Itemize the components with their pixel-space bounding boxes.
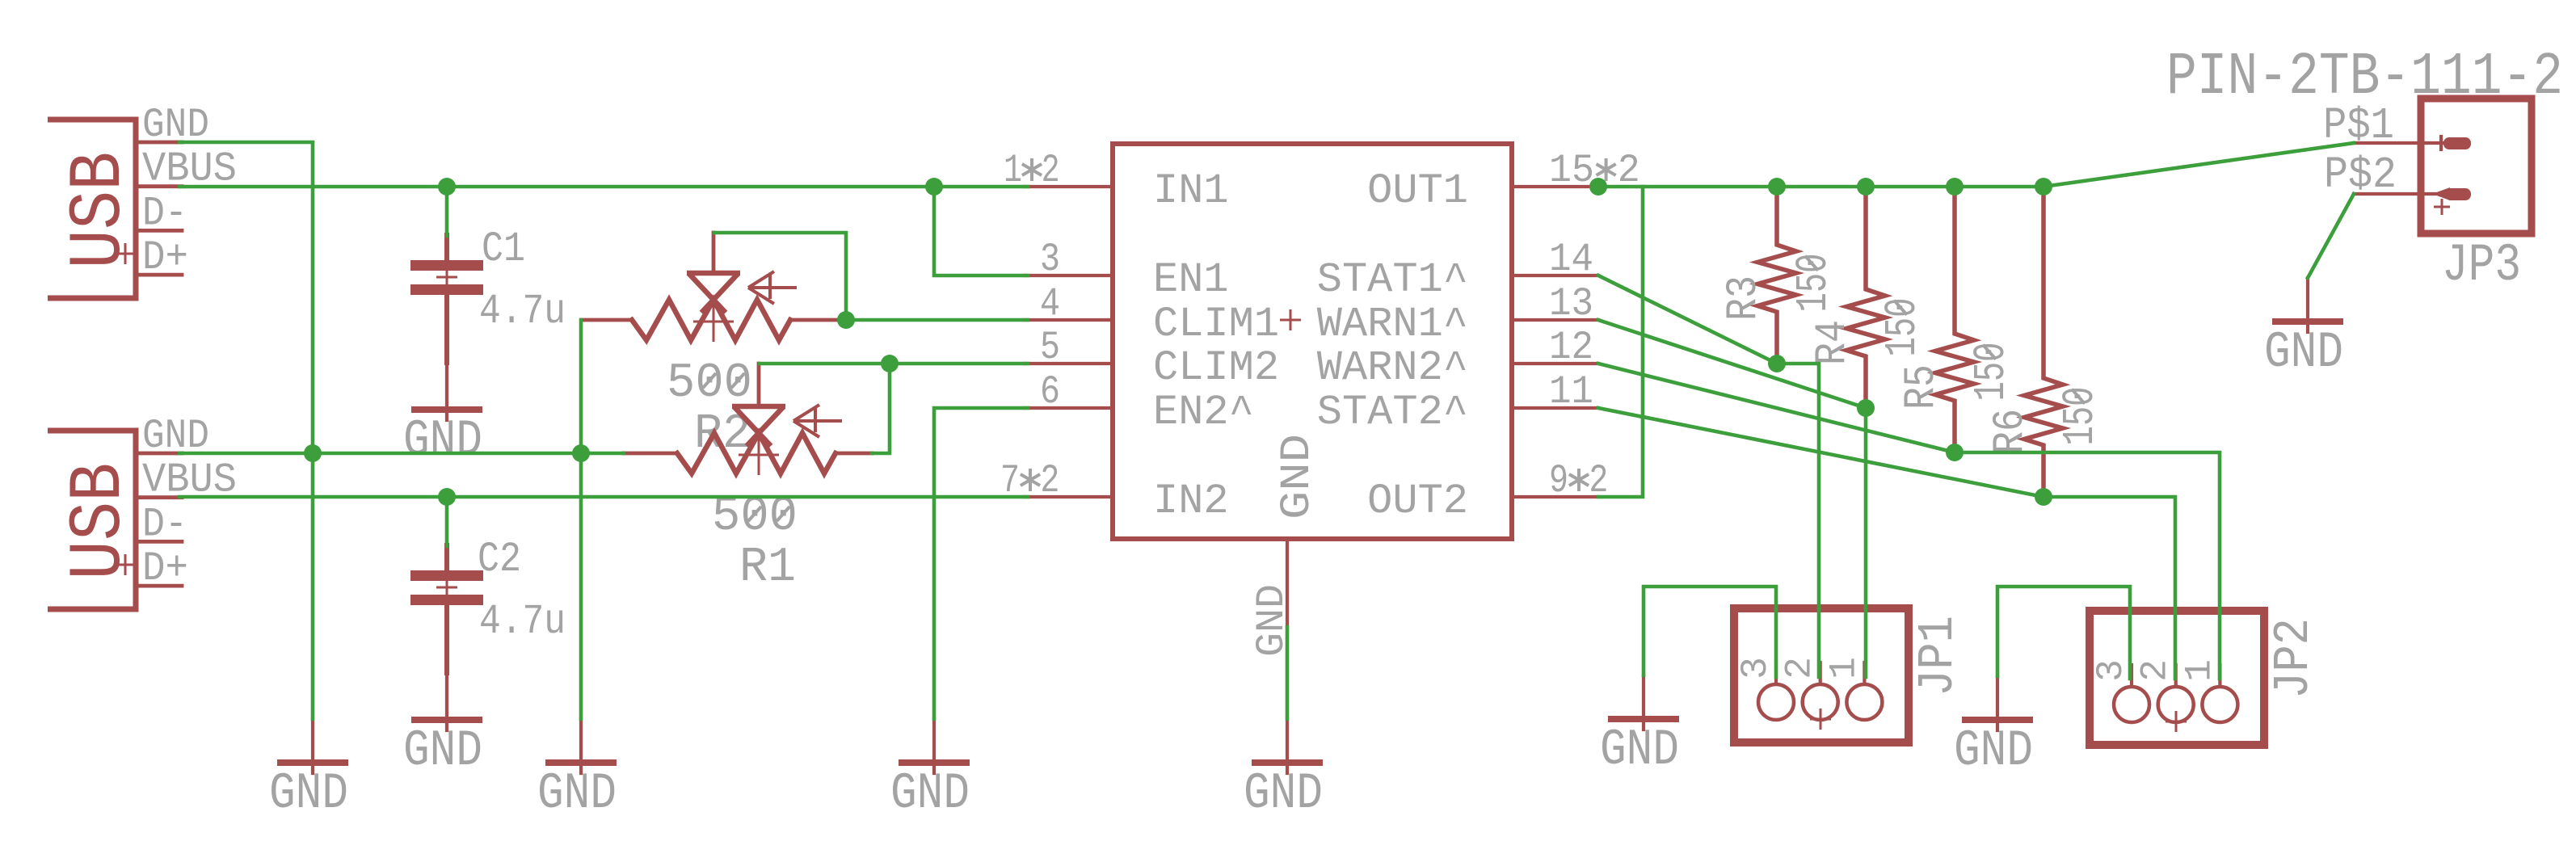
pin 15*2 (OUT1) <box>1367 148 1640 215</box>
svg-text:150: 150 <box>2055 387 2106 446</box>
pin 1*2 (IN1) <box>1004 148 1229 215</box>
svg-text:OUT1: OUT1 <box>1367 167 1468 215</box>
wire GND2 row: USB2.GND across <box>179 452 581 456</box>
connector USB (J1) <box>48 120 182 298</box>
junction <box>1946 444 1964 461</box>
svg-text:WARN2^: WARN2^ <box>1317 344 1468 392</box>
wire EN2 to gnd <box>934 408 1028 719</box>
svg-text:3: 3 <box>2090 659 2132 682</box>
connector JP3 (PIN-2TB-111-2) <box>2354 99 2532 233</box>
svg-text:GND: GND <box>890 765 970 822</box>
svg-text:D-: D- <box>142 502 187 548</box>
capacitor C1 <box>410 233 483 365</box>
svg-text:USB: USB <box>57 463 141 580</box>
ground <box>403 366 482 469</box>
wire C1 top lead <box>445 187 449 236</box>
svg-text:JP1: JP1 <box>1909 616 1967 696</box>
svg-text:D+: D+ <box>142 546 188 592</box>
svg-text:WARN1^: WARN1^ <box>1317 301 1468 348</box>
svg-text:1: 1 <box>1823 657 1865 679</box>
svg-text:150: 150 <box>1788 254 1839 313</box>
svg-text:12: 12 <box>1549 325 1593 370</box>
ground <box>269 719 348 822</box>
svg-text:R6: R6 <box>1986 409 2035 454</box>
junction <box>1768 355 1786 372</box>
svg-text:P$2: P$2 <box>2324 149 2397 200</box>
junction <box>1589 178 1607 196</box>
junction <box>1857 399 1875 417</box>
ground <box>1600 675 1679 779</box>
resistor R4 150 <box>1846 187 1885 408</box>
IC GND pin <box>1249 434 1321 657</box>
pin numbers 3 2 1 <box>1735 657 1865 679</box>
wire WARN1 to JP1.1 <box>1864 408 1868 677</box>
svg-text:13: 13 <box>1549 281 1593 326</box>
potentiometer R2 500 <box>582 233 844 342</box>
svg-text:4: 4 <box>1040 281 1060 326</box>
svg-text:STAT1^: STAT1^ <box>1317 256 1468 304</box>
svg-text:11: 11 <box>1549 369 1593 414</box>
svg-text:GND: GND <box>1954 722 2033 780</box>
svg-text:JP2: JP2 <box>2265 618 2322 699</box>
svg-text:R1: R1 <box>739 540 796 595</box>
svg-text:P$1: P$1 <box>2323 100 2394 151</box>
pin header JP2 <box>2090 611 2264 745</box>
wire R1 left lead <box>581 452 624 456</box>
svg-text:GND: GND <box>1600 721 1679 779</box>
wire STAT1 to JP1.2 <box>1777 364 1819 677</box>
pin 4 (CLIM1) <box>1025 281 1279 348</box>
USB pin labels GND VBUS D- D+ <box>142 414 237 592</box>
svg-text:D+: D+ <box>142 235 188 281</box>
wire C2 top lead <box>445 497 449 546</box>
svg-text:GND: GND <box>537 765 617 822</box>
wire STAT1 diagonal <box>1598 275 1777 364</box>
svg-text:JP3: JP3 <box>2442 235 2521 296</box>
wire WARN1 diagonal <box>1598 320 1866 408</box>
ground <box>1954 676 2033 780</box>
pin header JP1 <box>1734 608 1909 742</box>
svg-text:GND: GND <box>403 722 482 780</box>
ground <box>403 676 482 780</box>
wire pot column x719 <box>579 320 583 719</box>
pin 6 (EN2^) <box>1025 369 1254 436</box>
svg-text:STAT2^: STAT2^ <box>1317 389 1468 436</box>
svg-text:4.7u: 4.7u <box>479 288 566 335</box>
wire STAT2 diagonal <box>1598 408 2044 497</box>
wire OUT2 riser <box>1598 187 1643 497</box>
svg-text:GND: GND <box>269 765 348 822</box>
svg-text:USB: USB <box>57 152 141 269</box>
junction <box>925 178 943 196</box>
svg-text:EN2^: EN2^ <box>1153 389 1254 436</box>
pin 9*2 (OUT2) <box>1367 458 1608 525</box>
wire GND1: USB1.GND down <box>179 142 313 719</box>
pin 7*2 (IN2) <box>1000 458 1229 525</box>
ground <box>1244 719 1323 822</box>
svg-text:IN2: IN2 <box>1153 477 1229 525</box>
junction <box>1768 178 1786 196</box>
USB pin labels GND VBUS D- D+ <box>142 103 237 281</box>
connector USB (J2) <box>48 431 182 609</box>
junction <box>438 178 456 196</box>
svg-text:OUT2: OUT2 <box>1367 477 1468 525</box>
svg-text:2: 2 <box>1779 657 1821 679</box>
pin numbers 3 2 1 <box>2090 659 2220 682</box>
resistor R3 150 <box>1757 187 1796 364</box>
resistor R5 150 <box>1935 187 1974 452</box>
svg-text:GND: GND <box>2264 324 2343 381</box>
op-amp/power-switch IC U1 box <box>1113 144 1512 539</box>
svg-text:EN1: EN1 <box>1153 256 1229 304</box>
pin 12 (WARN2^) <box>1317 325 1598 392</box>
svg-text:1: 1 <box>2178 659 2220 682</box>
svg-text:150: 150 <box>1877 298 1928 357</box>
svg-text:C2: C2 <box>478 536 521 583</box>
wire VBUS1: USB1.VBUS to IC IN1 <box>179 185 1028 189</box>
wire P$2 to GND diagonal <box>2308 194 2354 278</box>
wire CLIM2 to pin 5 <box>890 362 1028 366</box>
junction <box>2035 178 2052 196</box>
junction <box>1946 178 1964 196</box>
ground <box>890 719 970 822</box>
svg-text:GND: GND <box>1273 434 1321 519</box>
svg-text:5: 5 <box>1040 325 1060 370</box>
pin 3 (EN1) <box>1025 237 1229 304</box>
svg-text:2: 2 <box>2135 659 2177 682</box>
svg-text:3: 3 <box>1735 657 1777 679</box>
svg-text:R3: R3 <box>1719 275 1769 321</box>
svg-text:IN1: IN1 <box>1153 167 1229 215</box>
svg-text:4.7u: 4.7u <box>479 598 566 646</box>
svg-text:D-: D- <box>142 191 187 237</box>
svg-text:R5: R5 <box>1897 364 1947 410</box>
pin 13 (WARN1^) <box>1317 281 1598 348</box>
junction <box>572 444 590 462</box>
wire R1 wiper to CLIM2 <box>760 362 890 366</box>
svg-text:6: 6 <box>1040 369 1060 414</box>
junction <box>2035 488 2052 506</box>
junction <box>438 488 456 506</box>
wire STAT2 to JP2.2 <box>2044 497 2175 679</box>
wire IC GND down <box>1286 627 1290 719</box>
svg-text:CLIM1: CLIM1 <box>1153 301 1279 348</box>
ground <box>2264 278 2343 381</box>
wire R2 wiper to CLIM1 <box>714 233 846 320</box>
wire WARN2 to JP2.1 <box>1955 452 2220 679</box>
wire R1 right lead up <box>872 364 890 453</box>
pin 11 (STAT2^) <box>1317 369 1598 436</box>
pin 14 (STAT1^) <box>1317 237 1598 304</box>
svg-text:150: 150 <box>1966 343 2017 402</box>
svg-text:CLIM2: CLIM2 <box>1153 344 1279 392</box>
svg-text:500: 500 <box>667 356 752 411</box>
junction <box>304 444 322 462</box>
pin 5 (CLIM2) <box>1025 325 1279 392</box>
svg-text:15: 15 <box>1549 148 1594 193</box>
wire OUT1 diagonal to P$1 <box>2044 143 2354 187</box>
svg-text:3: 3 <box>1040 237 1060 282</box>
wire CLIM1 to pin 4 <box>846 318 1028 322</box>
svg-text:14: 14 <box>1549 237 1593 282</box>
wire OUT1 bus <box>1598 185 2044 189</box>
svg-text:R4: R4 <box>1808 320 1858 365</box>
junction <box>837 311 855 329</box>
svg-text:2: 2 <box>1042 148 1060 193</box>
svg-text:GND: GND <box>1244 765 1323 822</box>
svg-text:2: 2 <box>1040 458 1059 503</box>
wire GND to JP1.3 <box>1644 587 1776 677</box>
junction <box>881 355 899 372</box>
potentiometer R1 500 <box>624 364 872 475</box>
ground <box>537 719 617 822</box>
resistor R6 150 <box>2024 187 2063 497</box>
wire EN1 tap <box>934 187 1028 275</box>
wire GND to JP2.3 <box>1997 587 2130 679</box>
wire WARN2 diagonal <box>1598 364 1955 452</box>
svg-text:C1: C1 <box>482 225 525 273</box>
svg-text:9: 9 <box>1549 458 1568 503</box>
wire VBUS2: USB2.VBUS to IC IN2 <box>179 495 1028 499</box>
svg-text:GND: GND <box>403 412 482 469</box>
junction <box>1857 178 1875 196</box>
capacitor C2 <box>410 543 483 675</box>
